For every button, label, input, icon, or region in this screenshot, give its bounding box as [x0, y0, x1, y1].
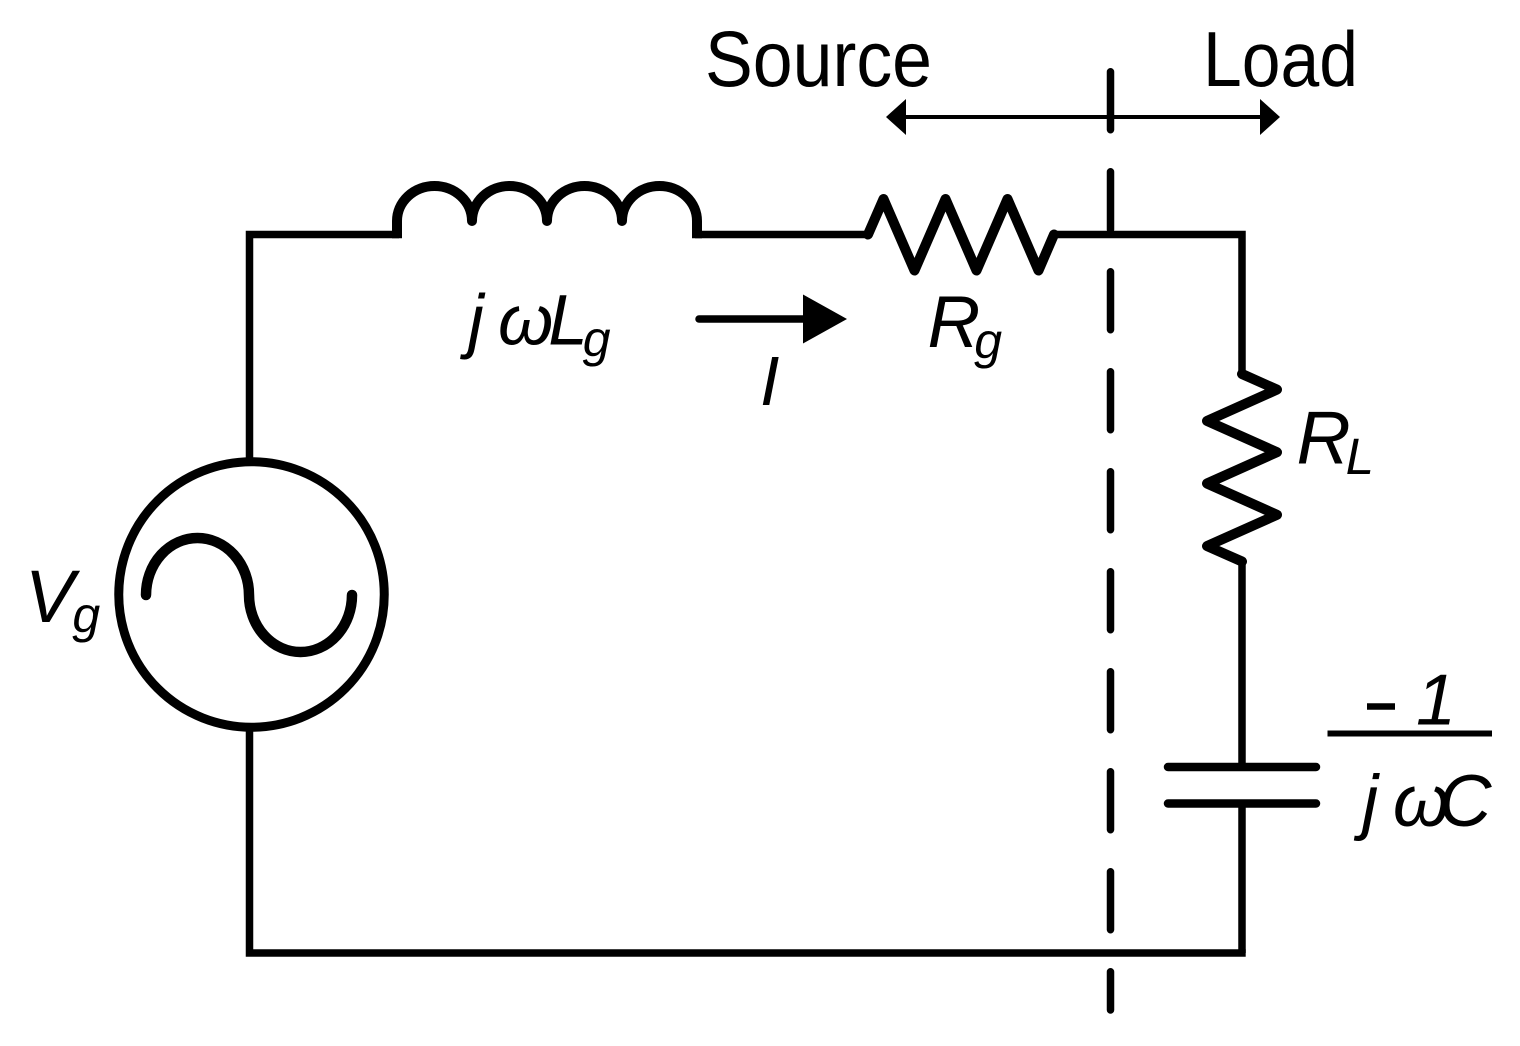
svg-text:Rg: Rg	[928, 282, 1003, 369]
svg-text:RL: RL	[1297, 396, 1375, 486]
AC source Vg: sine-wave symbol	[146, 538, 352, 652]
svg-text:Vg: Vg	[25, 555, 100, 643]
resistor RL zigzag	[1207, 374, 1277, 562]
svg-text:j ωC: j ωC	[1353, 761, 1493, 842]
Load arrowhead (right)	[1260, 99, 1280, 135]
capacitor C: bottom plate	[1168, 799, 1316, 808]
wire: resistor Rg to top-right corner junction, down to resistor RL	[1052, 235, 1242, 377]
wire: left vertical below source Vg, bottom horizontal return to right	[250, 728, 1246, 953]
wire: between inductor Lg and resistor Rg	[695, 231, 870, 239]
wire: capacitor C bottom plate down to bottom return wire	[1238, 806, 1246, 953]
capacitor C: top plate	[1168, 763, 1316, 772]
svg-text:I: I	[760, 342, 779, 420]
Source/Load double-headed arrow shaft	[895, 115, 1271, 119]
Source arrowhead (left)	[886, 99, 906, 135]
svg-text:Source: Source	[705, 14, 932, 103]
wire: resistor RL bottom to capacitor C top plate	[1238, 560, 1246, 765]
AC source Vg: circle outline	[119, 462, 385, 728]
svg-text:j ωLg: j ωLg	[460, 282, 611, 368]
wire: top-left horizontal segment and left vertical down to source Vg	[250, 235, 400, 462]
current I arrow shaft	[699, 315, 806, 323]
svg-text:1: 1	[1416, 661, 1456, 741]
value label -1/jwC: fraction bar	[1328, 731, 1493, 737]
inductor Lg (impedance jwLg)	[397, 186, 697, 238]
current I arrowhead	[803, 295, 847, 344]
resistor Rg zigzag	[868, 199, 1054, 271]
value label -1/jwC for capacitor: numerator minus sign	[1367, 703, 1395, 710]
svg-text:Load: Load	[1203, 15, 1358, 103]
dashed boundary line between Source and Load	[1107, 72, 1115, 1010]
